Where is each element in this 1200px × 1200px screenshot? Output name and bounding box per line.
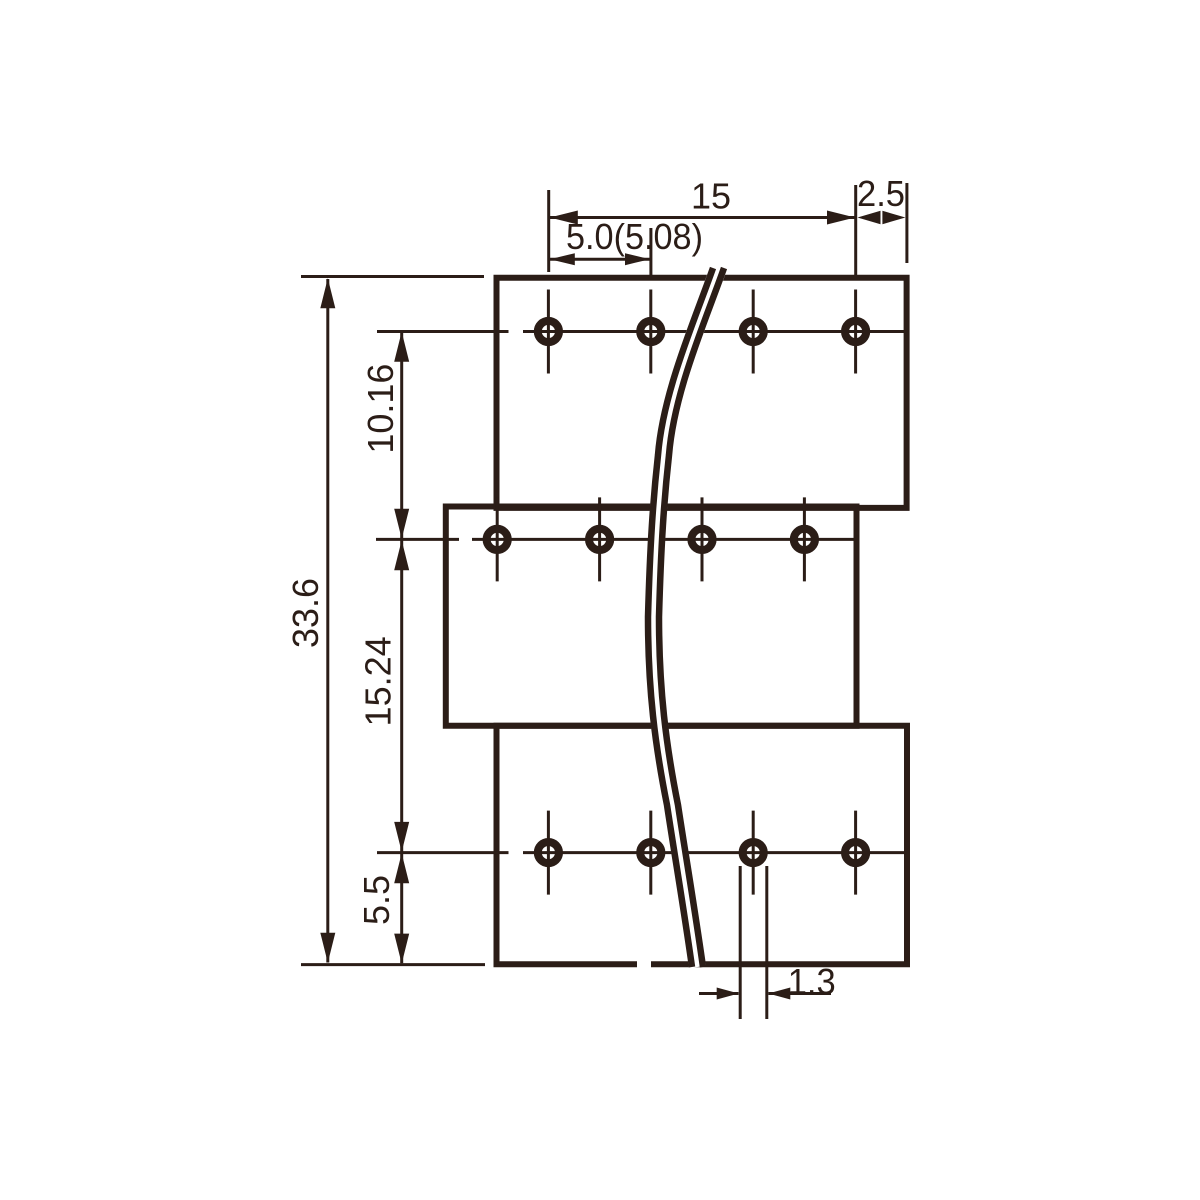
hole A4 (845, 321, 866, 342)
hole A1 (538, 321, 559, 342)
centerline row 2 (extension + through holes) (376, 538, 459, 541)
arrow 2.5 left (858, 211, 881, 224)
svg-text:10.16: 10.16 (360, 364, 401, 454)
bottom edge left segment (494, 961, 638, 967)
svg-text:33.6: 33.6 (285, 578, 326, 648)
arrow 5.0 right (625, 253, 650, 265)
dim 5.0 line (550, 258, 651, 261)
dim 33.6 extension line bottom (301, 963, 485, 966)
arrow 15 right (827, 211, 855, 225)
dim 15 line (550, 216, 856, 219)
arrow 10.16 down (394, 509, 409, 539)
hole B2 crosshair (598, 497, 601, 581)
hole B2 (589, 529, 610, 550)
body outline: top rectangle (497, 278, 907, 508)
dim 15 extension line right (854, 185, 857, 276)
arrow 1.3 right-pointing (717, 988, 739, 1000)
dim 10.16 line (400, 333, 403, 539)
bottom edge right segment (651, 961, 910, 967)
arrow 10.16 up (394, 332, 409, 362)
hole B1 (487, 529, 508, 550)
break curve white mask (654, 268, 719, 967)
hole B4 (794, 529, 815, 550)
dim 1.3 line left part (699, 992, 739, 995)
hole C1 crosshair (547, 811, 550, 895)
hole C2 crosshair (649, 811, 652, 895)
hole C2 (640, 842, 661, 863)
hole B4 crosshair (803, 497, 806, 581)
hole A3 (743, 321, 764, 342)
dim 5.0 extension line right (649, 228, 652, 276)
hole C3 (743, 842, 764, 863)
hole A2 crosshair (649, 290, 652, 374)
svg-text:15: 15 (691, 176, 731, 217)
svg-text:1.3: 1.3 (788, 961, 836, 1002)
arrow 5.5 up (394, 853, 409, 883)
centerline row 1 (extension + through holes) (377, 330, 509, 333)
svg-text:2.5: 2.5 (857, 173, 905, 214)
hole A1 crosshair (547, 290, 550, 374)
arrow 15.24 up (394, 540, 409, 570)
hole C3 crosshair (752, 811, 755, 895)
arrow 1.3 left-pointing (768, 988, 790, 1000)
centerline row 3 (extension + through holes) (377, 851, 509, 854)
arrow 5.5 down (394, 934, 409, 964)
dim 1.3 extension line left (739, 866, 742, 1019)
svg-text:5.5: 5.5 (356, 875, 397, 925)
hole C4 (845, 842, 866, 863)
hole A2 (640, 321, 661, 342)
hole B3 crosshair (701, 497, 704, 581)
hole C4 crosshair (854, 811, 857, 895)
hole A3 crosshair (752, 290, 755, 374)
break curve left line (648, 268, 713, 967)
body outline: bottom rectangle (bottom edge drawn separately with gap) (497, 726, 908, 965)
dim 33.6 line (326, 279, 329, 963)
break curve right line (659, 268, 724, 967)
dim 1.3 extension line right (765, 866, 768, 1019)
arrow 33.6 up (320, 278, 335, 308)
hole B1 crosshair (496, 497, 499, 581)
svg-text:5.0(5.08): 5.0(5.08) (566, 216, 703, 257)
svg-text:15.24: 15.24 (358, 636, 399, 726)
arrow 15 left (550, 211, 578, 225)
hole A4 crosshair (854, 290, 857, 374)
dim 1.3 line right part (768, 992, 831, 995)
arrow 2.5 right (882, 211, 905, 224)
dim 2.5 extension line right (905, 183, 908, 263)
dim 15 extension line left (547, 190, 550, 272)
dim 5.5 line (400, 854, 403, 964)
body outline: middle rectangle (446, 507, 857, 726)
dim 33.6 extension line top (301, 275, 484, 278)
arrow 5.0 left (550, 253, 575, 265)
hole C1 (538, 842, 559, 863)
hole B3 (691, 529, 712, 550)
arrow 15.24 down (394, 822, 409, 852)
arrow 33.6 down (320, 933, 335, 963)
dim 15.24 line (400, 540, 403, 851)
